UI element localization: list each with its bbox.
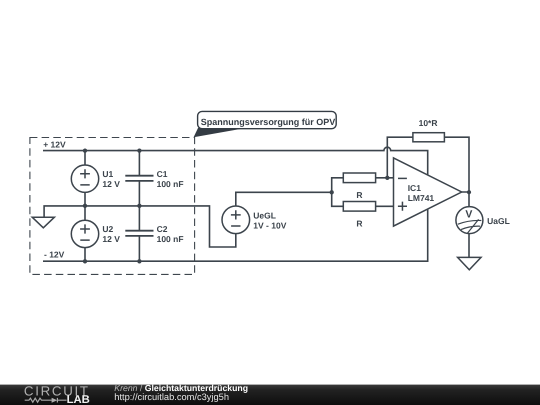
svg-text:R: R [356, 190, 362, 200]
svg-text:V: V [465, 208, 472, 220]
svg-text:LAB: LAB [67, 394, 90, 405]
svg-text:UaGL: UaGL [487, 216, 510, 226]
svg-text:10*R: 10*R [419, 118, 438, 128]
svg-text:R: R [356, 219, 362, 229]
svg-text:U1: U1 [102, 169, 113, 179]
svg-text:U2: U2 [102, 224, 113, 234]
svg-text:100 nF: 100 nF [157, 234, 184, 244]
svg-text:C2: C2 [157, 224, 168, 234]
svg-text:12 V: 12 V [102, 179, 120, 189]
svg-text:12 V: 12 V [102, 234, 120, 244]
svg-text:IC1: IC1 [408, 183, 422, 193]
svg-text:http://circuitlab.com/c3yjg5h: http://circuitlab.com/c3yjg5h [114, 392, 229, 402]
svg-text:1V - 10V: 1V - 10V [253, 220, 286, 230]
svg-text:C1: C1 [157, 169, 168, 179]
svg-text:- 12V: - 12V [44, 249, 65, 259]
svg-text:100 nF: 100 nF [157, 179, 184, 189]
svg-text:+ 12V: + 12V [43, 140, 66, 150]
svg-text:Spannungsversorgung für OPV: Spannungsversorgung für OPV [201, 117, 336, 127]
svg-text:LM741: LM741 [408, 193, 435, 203]
svg-text:UeGL: UeGL [253, 211, 276, 221]
